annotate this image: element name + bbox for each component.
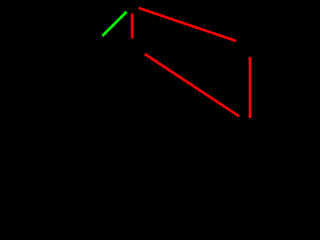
red vertical segment A (center-top) <box>131 14 134 39</box>
green segment (up-right diagonal, left of center) <box>102 12 126 36</box>
red diagonal segment B (top, long, shallow slope) <box>139 8 236 41</box>
red vertical segment D (right side) <box>249 57 252 118</box>
red diagonal segment C (middle, long, steeper slope) <box>145 54 239 116</box>
